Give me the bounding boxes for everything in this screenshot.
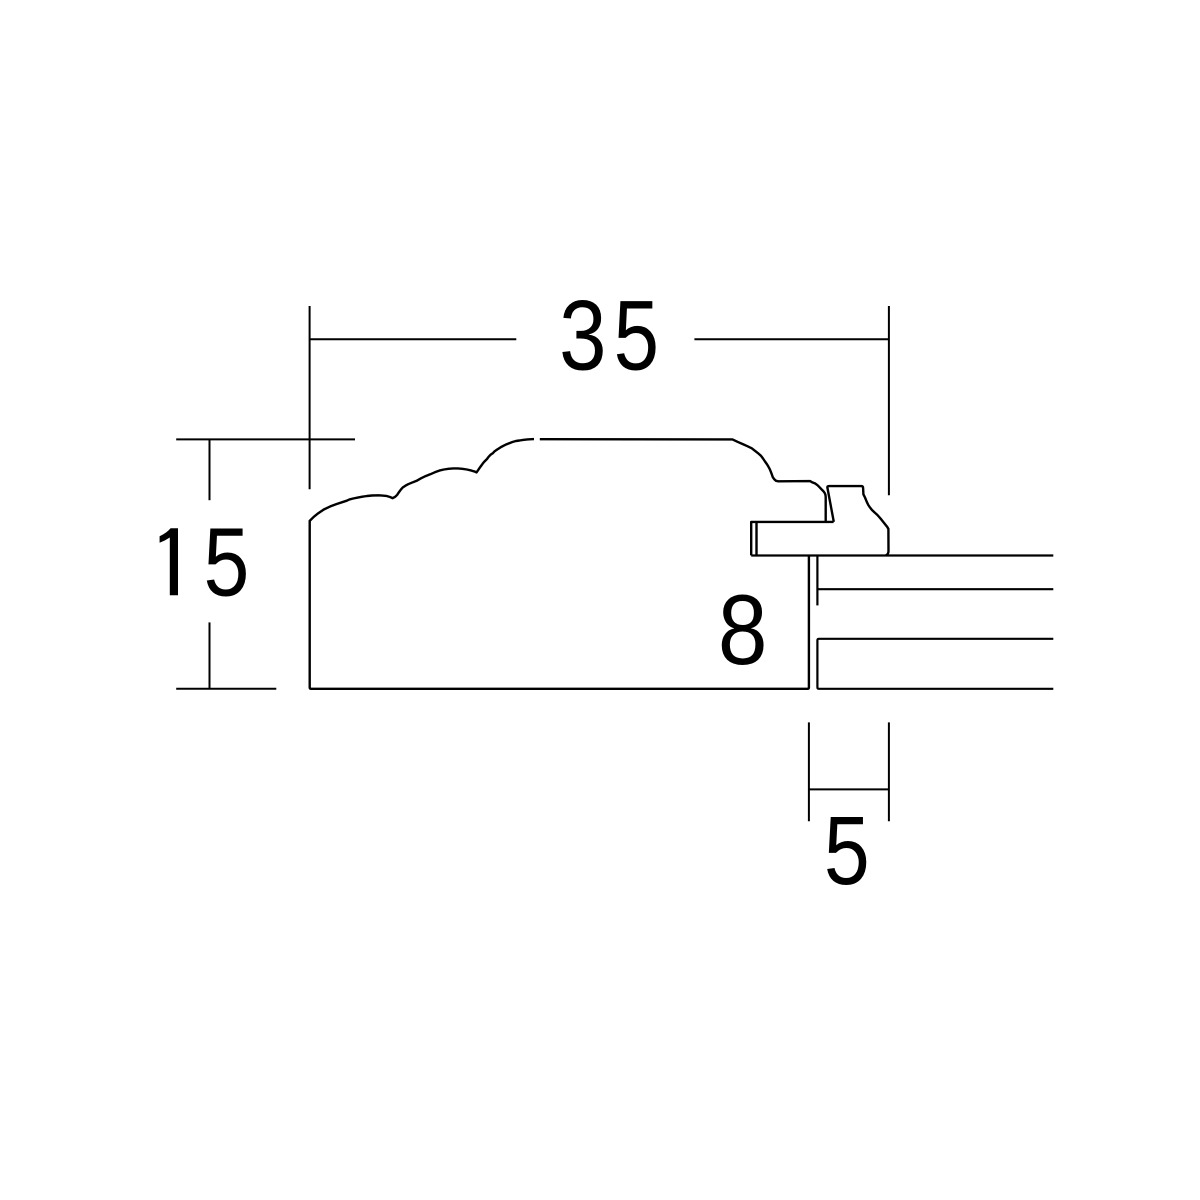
svg-text:5: 5: [824, 798, 870, 906]
rabbet lip: inner end cap line: [755, 522, 757, 556]
rabbet lip: top surface and outer end cap: [751, 522, 833, 556]
dimension 35: dimension line left segment: [310, 338, 517, 340]
dimension 35: right extension line: [888, 306, 890, 495]
molding body outline (left edge, bottom, rabbet wall, left ascent curve): [310, 439, 809, 689]
svg-text:3: 3: [559, 279, 606, 391]
dimension 15: dimension line bottom segment: [209, 622, 211, 688]
raised hook (back lip) of molding: [827, 486, 888, 555]
dimension 5: right extension line: [888, 722, 890, 821]
dimension 5: dimension line: [809, 788, 889, 790]
dimension 35: left extension line: [309, 306, 311, 489]
svg-text:8: 8: [718, 575, 768, 685]
dimension 5: left extension line: [808, 722, 810, 821]
svg-text:5: 5: [614, 281, 659, 391]
backing board (top, left edge, bottom): [817, 639, 1053, 689]
dimension 15: label digit 1: [160, 528, 178, 595]
glass top line / lip underside: [751, 554, 1053, 556]
dimension 15: bottom extension line: [176, 688, 276, 690]
glass bottom line: [817, 588, 1053, 590]
dimension 15: top extension line: [176, 438, 355, 440]
glass left edge: [816, 556, 818, 605]
dimension 15: dimension line top segment: [209, 439, 211, 500]
dimension 35: dimension line right segment: [694, 338, 889, 340]
molding top flat and right descent curve into notch: [540, 439, 826, 522]
svg-text:5: 5: [203, 509, 249, 617]
